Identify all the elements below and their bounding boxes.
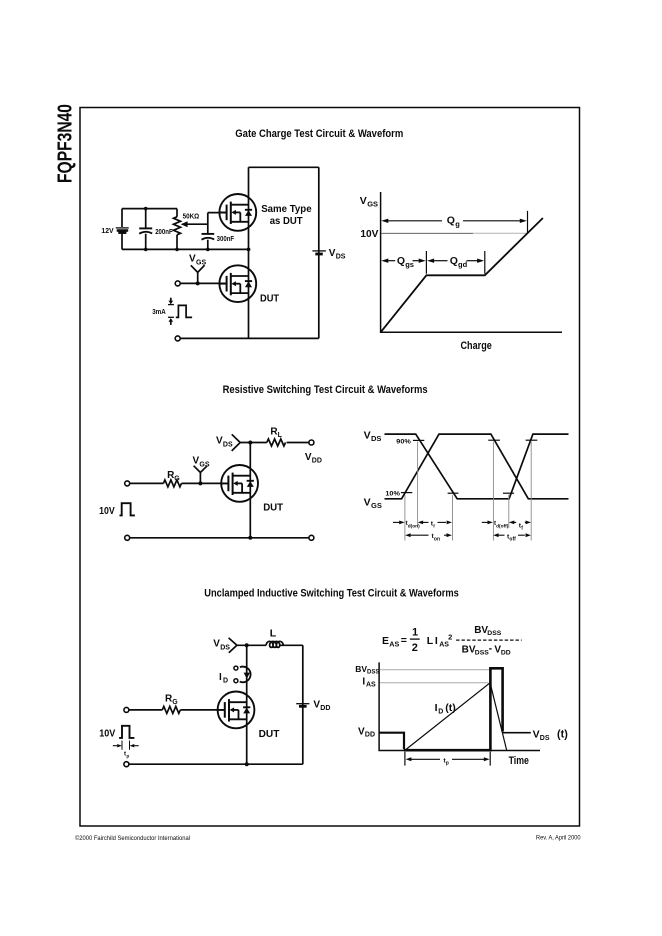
resistor RG: [163, 480, 181, 487]
svg-text:V: V: [189, 254, 196, 265]
svg-text:Unclamped Inductive Switching: Unclamped Inductive Switching Test Circu…: [204, 588, 458, 600]
mosfet Q1 Same Type as DUT: [219, 194, 256, 231]
threshold dashes: [401, 440, 537, 493]
svg-text:V: V: [360, 195, 367, 207]
battery VDD on right rail: [296, 704, 309, 707]
svg-text:DSS: DSS: [367, 670, 379, 676]
wire RL to VDD terminal: [287, 442, 309, 444]
svg-text:Same Type: Same Type: [261, 203, 312, 215]
gridline BVDSS gray: [380, 669, 490, 671]
potentiometer R1 50KOhm: [174, 209, 181, 250]
wire left rail drain-source chain: [248, 167, 250, 338]
svg-text:DSS: DSS: [487, 630, 501, 637]
svg-text:Gate Charge Test Circuit & Wav: Gate Charge Test Circuit & Waveform: [235, 128, 403, 140]
node junction dots bias network: [144, 207, 251, 252]
mosfet Q2 DUT: [219, 265, 256, 302]
wire node to RL: [250, 442, 266, 444]
wire input to RG: [130, 482, 164, 484]
terminal bottom left: [125, 535, 130, 540]
dimension tp pulse: [113, 741, 139, 750]
svg-text:DD: DD: [365, 732, 375, 739]
svg-text:p: p: [446, 761, 449, 767]
waveform VDS trace: [385, 434, 569, 499]
svg-text:G: G: [172, 699, 178, 706]
svg-text:AS: AS: [389, 640, 399, 649]
waveform VDS tail: [502, 732, 531, 734]
svg-text:Charge: Charge: [461, 340, 492, 352]
svg-text:on: on: [434, 536, 440, 542]
wire input to RG: [129, 709, 163, 711]
capacitor C2 300nF: [202, 224, 215, 249]
svg-text:I: I: [435, 635, 438, 647]
svg-text:p: p: [126, 754, 129, 759]
svg-text:DD: DD: [312, 457, 322, 464]
gridline 10V gray: [381, 232, 473, 234]
svg-text:Q: Q: [447, 215, 455, 227]
svg-text:90%: 90%: [396, 438, 411, 445]
node top drain junction: [248, 441, 252, 445]
dimension tf: [509, 521, 531, 525]
wire RG to gate: [182, 482, 229, 484]
resistor RL: [267, 439, 286, 446]
capacitor C1 200nF: [139, 209, 152, 250]
probe VGS (Y symbol): [194, 466, 208, 486]
svg-text:GS: GS: [196, 260, 206, 267]
droplines gray: [405, 442, 531, 541]
wire bottom rail: [180, 337, 319, 339]
svg-text:DS: DS: [540, 735, 550, 742]
wire drain rail: [246, 645, 248, 764]
inductor L: [266, 641, 283, 647]
svg-text:50KΩ: 50KΩ: [183, 212, 200, 221]
dimension tr: [418, 521, 452, 525]
svg-text:I: I: [219, 672, 222, 683]
svg-text:Resistive Switching Test Circu: Resistive Switching Test Circuit & Wavef…: [223, 384, 428, 396]
svg-text:-: -: [489, 643, 493, 655]
svg-text:g: g: [455, 220, 460, 229]
svg-text:E: E: [382, 635, 389, 647]
probe VDS (sideways Y): [232, 434, 251, 451]
svg-text:GS: GS: [199, 462, 209, 469]
svg-text:DS: DS: [371, 434, 381, 443]
terminal bottom right: [309, 535, 314, 540]
svg-text:DUT: DUT: [263, 502, 283, 514]
pulse symbol 10V input: [119, 726, 134, 738]
svg-text:gs: gs: [405, 260, 414, 269]
svg-text:I: I: [435, 702, 438, 714]
svg-text:D: D: [223, 678, 228, 685]
mosfet Q4 DUT inductive: [218, 692, 255, 729]
svg-text:DD: DD: [501, 650, 511, 657]
dimension toff: [493, 533, 531, 537]
waveform VDS start VDD level: [379, 733, 404, 750]
gridline IAS gray: [380, 682, 489, 684]
svg-text:10%: 10%: [385, 491, 400, 498]
svg-text:V: V: [364, 497, 371, 509]
wire right rail: [302, 645, 304, 764]
svg-text:DD: DD: [320, 705, 330, 712]
svg-text:I: I: [362, 676, 365, 687]
mosfet Q3 DUT resistive: [221, 465, 258, 502]
formula fraction bar dashed: [456, 639, 522, 641]
dimension td(on): [393, 521, 405, 525]
svg-text:1: 1: [412, 626, 418, 638]
wire inductor to right rail: [280, 644, 303, 646]
graph axes VGS vs Charge: [381, 192, 562, 332]
svg-text:L: L: [278, 432, 283, 439]
probe VDS (sideways Y): [229, 638, 247, 653]
svg-text:L: L: [427, 635, 434, 647]
svg-text:d(off): d(off): [496, 523, 509, 529]
svg-text:300nF: 300nF: [217, 234, 235, 243]
svg-text:=: =: [401, 634, 407, 646]
svg-text:(t): (t): [445, 702, 456, 714]
svg-text:Time: Time: [509, 755, 529, 767]
svg-text:12V: 12V: [101, 226, 114, 235]
wire node to inductor: [247, 644, 267, 646]
svg-text:GS: GS: [367, 200, 378, 209]
svg-text:as DUT: as DUT: [270, 215, 303, 227]
svg-text:(t): (t): [557, 729, 568, 741]
page border frame: [80, 108, 580, 827]
svg-text:BV: BV: [355, 664, 367, 674]
svg-text:2: 2: [412, 642, 418, 654]
dimension Qgd: [427, 259, 484, 263]
current source pulse annotation 3mA: [168, 298, 192, 325]
dimension Qg: [381, 211, 527, 234]
terminal gate input: [175, 281, 180, 286]
svg-text:10V: 10V: [99, 728, 115, 740]
wire top rail bias network: [122, 208, 177, 210]
terminal VDD: [309, 440, 314, 445]
dimension ticks Qgs Qgd: [426, 251, 484, 274]
probe VGS (Y symbol): [191, 265, 205, 285]
formula fraction bar 1/2: [410, 638, 420, 640]
battery V2 VDS on right edge: [312, 251, 326, 254]
svg-text:10V: 10V: [99, 505, 115, 517]
svg-text:Q: Q: [450, 255, 458, 267]
terminal gate input left: [125, 481, 130, 486]
dimension Qgs: [381, 259, 425, 263]
dimension td(off): [482, 521, 493, 525]
svg-text:d(on): d(on): [408, 523, 420, 529]
svg-text:AS: AS: [366, 682, 376, 689]
svg-text:DSS: DSS: [475, 650, 489, 657]
svg-text:D: D: [438, 709, 443, 716]
battery V1 12V: [116, 209, 129, 250]
wire top edge of loop: [249, 166, 319, 168]
svg-text:DS: DS: [223, 441, 233, 448]
svg-text:DUT: DUT: [260, 293, 280, 305]
waveform ID triangle: [405, 683, 507, 751]
wire bottom rail bias network: [122, 248, 249, 250]
svg-text:Rev. A, April 2000: Rev. A, April 2000: [536, 835, 581, 842]
node top drain junction: [245, 643, 249, 647]
svg-text:BV: BV: [462, 644, 476, 655]
wire drain-source rail: [249, 443, 251, 538]
wire right edge of loop: [318, 167, 320, 338]
svg-text:200nF: 200nF: [155, 227, 173, 236]
terminal bottom left: [124, 762, 129, 767]
svg-text:L: L: [270, 628, 277, 640]
svg-text:V: V: [533, 729, 540, 741]
wire bottom rail: [130, 537, 309, 539]
svg-text:3mA: 3mA: [152, 307, 166, 316]
svg-text:gd: gd: [458, 260, 468, 269]
svg-text:Q: Q: [397, 255, 405, 267]
wire RG to gate: [180, 709, 225, 711]
svg-text:2: 2: [448, 632, 452, 641]
waveform VDS thick pulse: [404, 668, 503, 750]
svg-text:BV: BV: [474, 625, 488, 636]
svg-text:DUT: DUT: [259, 728, 280, 740]
wire wiper to gate of upper fet: [208, 213, 227, 225]
resistor RG inductive: [162, 706, 180, 713]
node source bottom junction: [248, 536, 252, 540]
terminal gate input left: [124, 707, 129, 712]
svg-text:r: r: [433, 524, 435, 530]
current probe ID: [234, 666, 251, 683]
svg-text:©2000 Fairchild Semiconductor: ©2000 Fairchild Semiconductor Internatio…: [75, 834, 190, 842]
dimension tp graph: [405, 752, 490, 766]
svg-text:DS: DS: [336, 253, 346, 260]
svg-text:off: off: [509, 537, 516, 543]
graph axes: [379, 662, 540, 750]
svg-text:V: V: [364, 430, 371, 442]
waveform VGS trace: [385, 434, 569, 499]
pulse symbol 10V input: [120, 503, 135, 515]
svg-text:FQPF3N40: FQPF3N40: [55, 104, 77, 183]
dimension ton: [405, 533, 452, 537]
terminal bottom left: [175, 336, 180, 341]
wire bottom rail: [129, 763, 303, 765]
curve VGS vs charge: [381, 218, 543, 332]
potentiometer wiper arrow: [181, 221, 208, 227]
wire gate input to DUT gate: [180, 282, 227, 284]
svg-text:AS: AS: [439, 642, 449, 649]
svg-text:G: G: [174, 475, 180, 482]
svg-text:10V: 10V: [360, 228, 378, 240]
node source bottom junction: [245, 762, 249, 766]
svg-text:DS: DS: [220, 644, 230, 651]
svg-text:GS: GS: [371, 501, 382, 510]
